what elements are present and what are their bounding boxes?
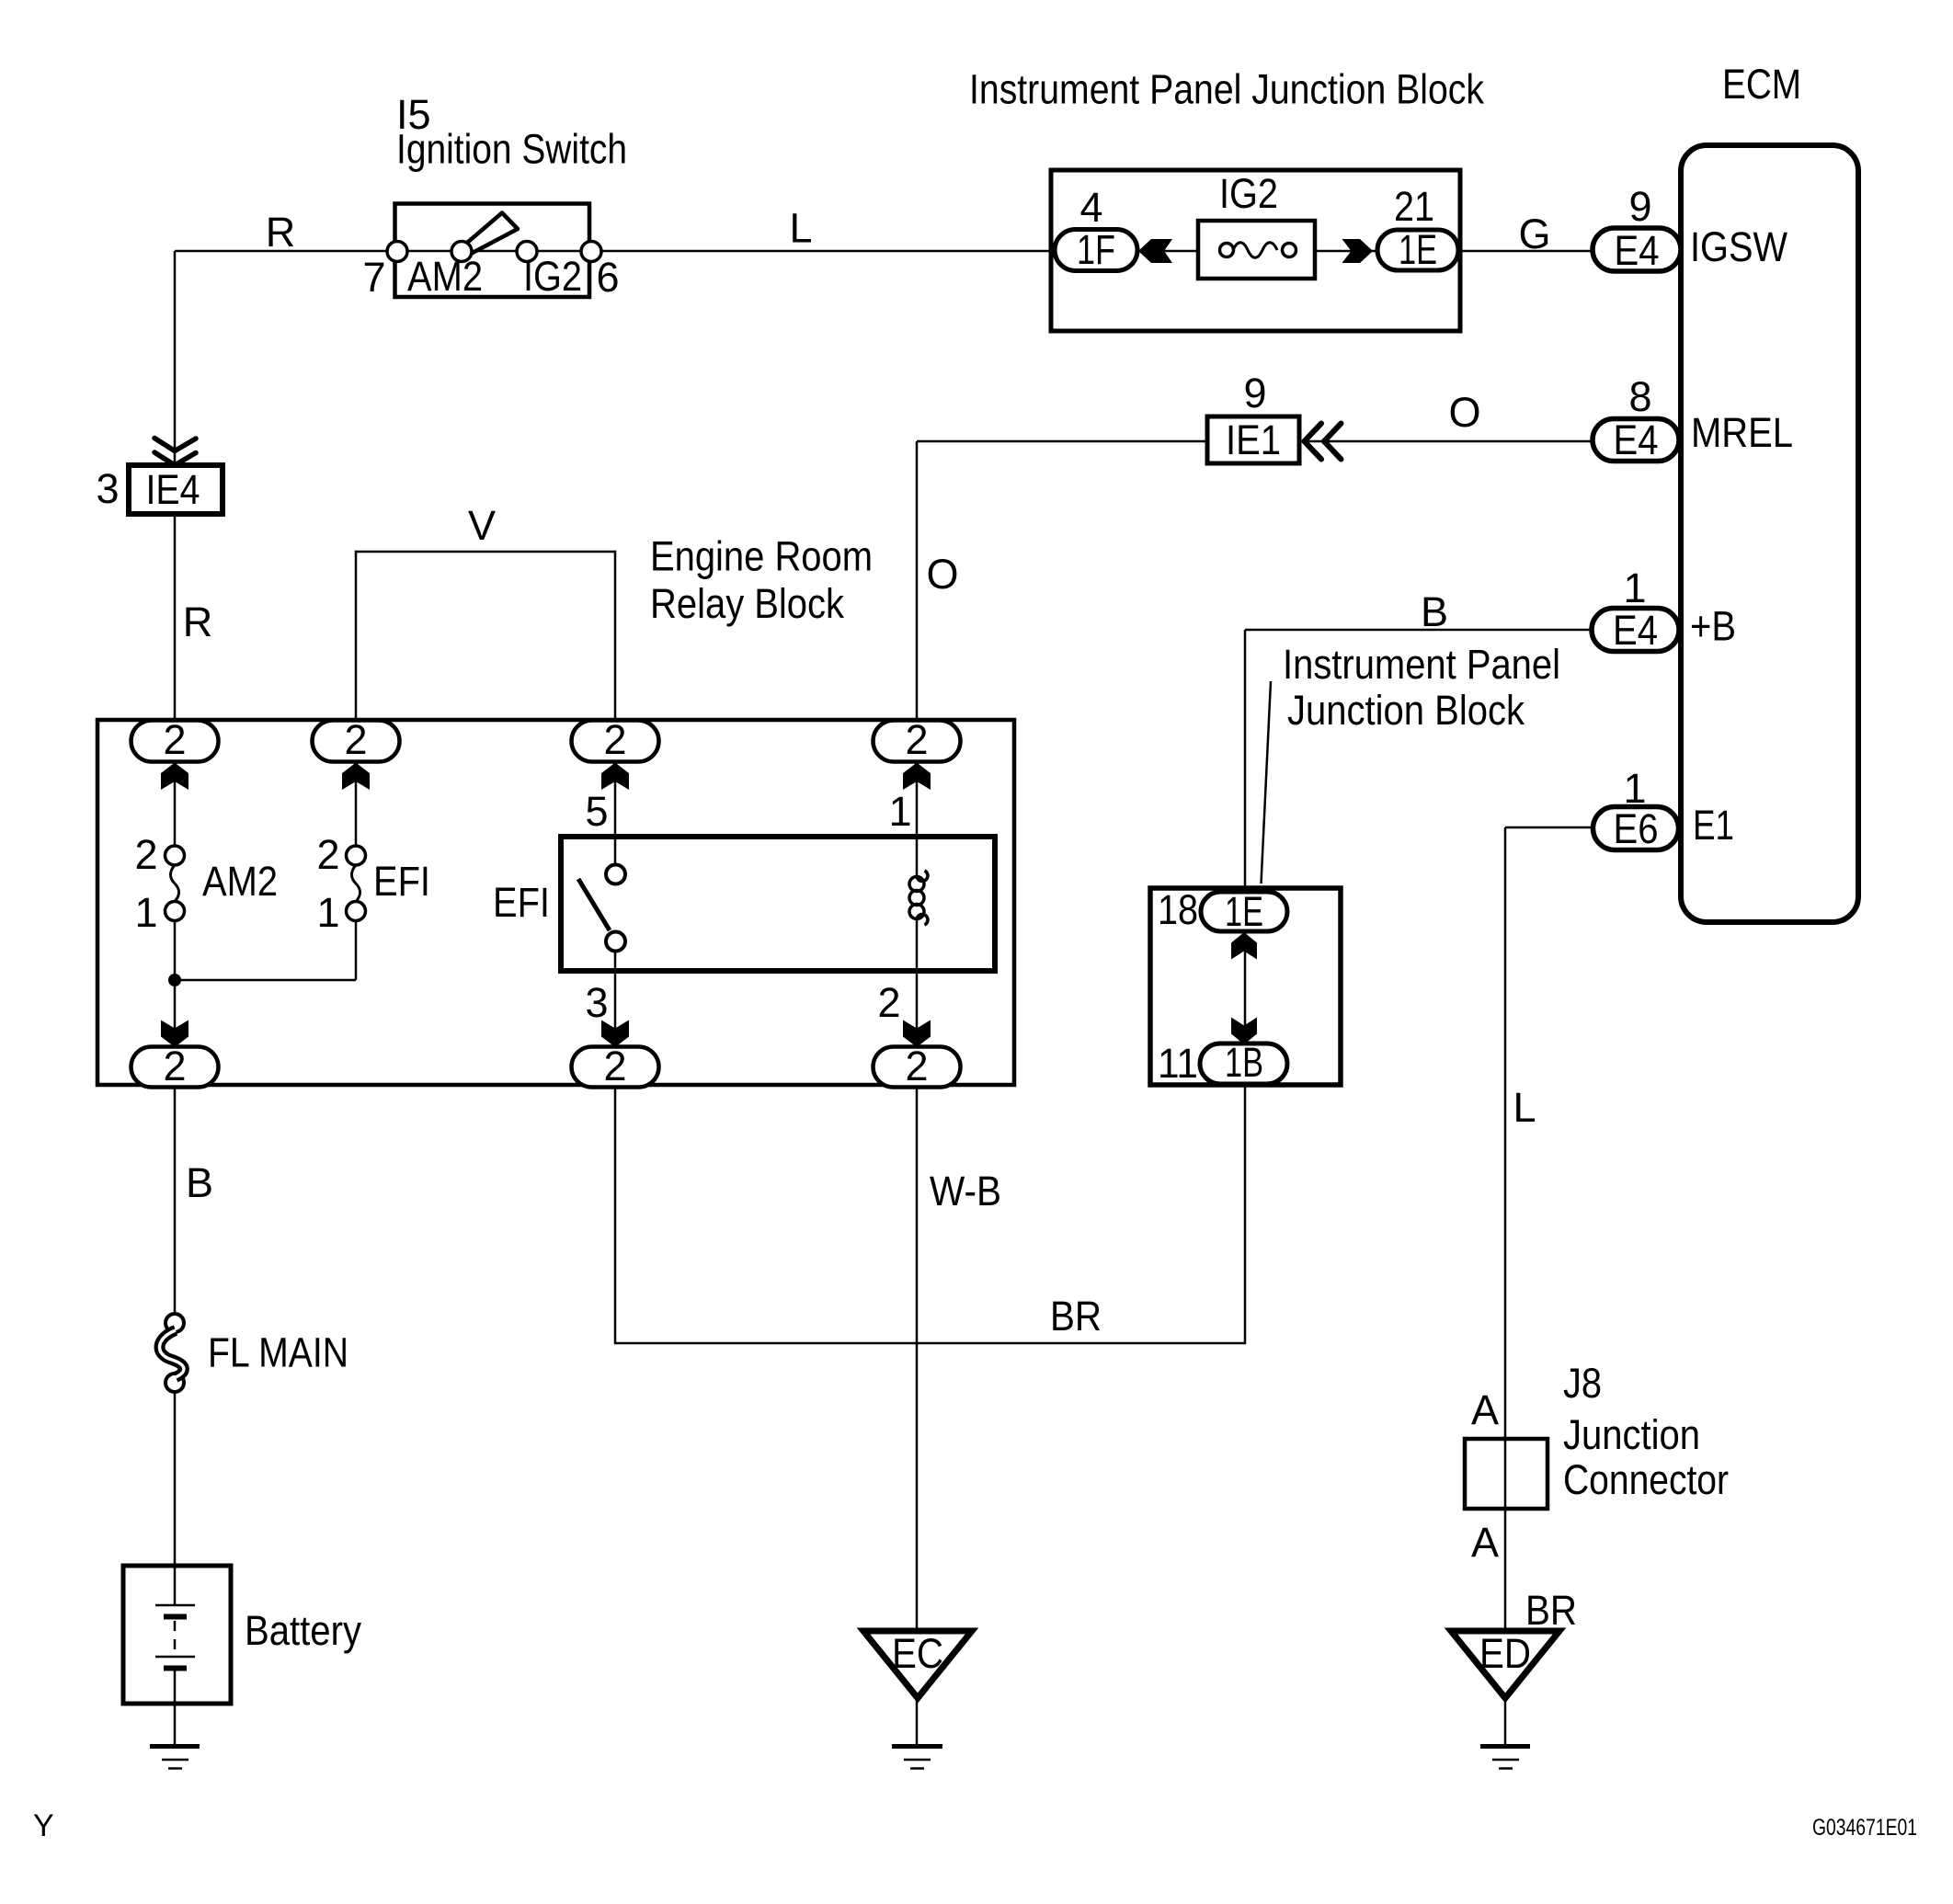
svg-text:EFI: EFI — [493, 879, 550, 926]
svg-text:1B: 1B — [1225, 1039, 1263, 1086]
svg-text:E4: E4 — [1615, 227, 1660, 274]
svg-text:2: 2 — [163, 1043, 186, 1089]
svg-text:EC: EC — [892, 1630, 943, 1677]
svg-text:J8: J8 — [1563, 1360, 1602, 1407]
svg-text:W-B: W-B — [930, 1168, 1001, 1214]
svg-text:Ignition Switch: Ignition Switch — [396, 126, 627, 173]
svg-text:IGSW: IGSW — [1690, 223, 1787, 270]
svg-text:O: O — [926, 551, 958, 598]
svg-text:18: 18 — [1158, 886, 1198, 933]
svg-text:21: 21 — [1394, 183, 1434, 230]
svg-text:3: 3 — [96, 465, 119, 512]
svg-text:2: 2 — [905, 716, 928, 763]
svg-text:Relay Block: Relay Block — [650, 580, 844, 627]
svg-text:Instrument Panel Junction Bloc: Instrument Panel Junction Block — [969, 66, 1484, 113]
svg-text:E4: E4 — [1614, 416, 1659, 463]
svg-text:1F: 1F — [1077, 226, 1115, 273]
svg-text:2: 2 — [877, 979, 900, 1026]
svg-text:2: 2 — [603, 1043, 626, 1089]
svg-text:A: A — [1471, 1386, 1499, 1433]
svg-text:E6: E6 — [1614, 805, 1659, 852]
svg-text:IE1: IE1 — [1226, 416, 1281, 463]
svg-text:V: V — [468, 502, 496, 549]
svg-text:1E: 1E — [1399, 226, 1437, 273]
svg-text:Connector: Connector — [1563, 1456, 1729, 1503]
svg-text:2: 2 — [905, 1043, 928, 1089]
svg-text:MREL: MREL — [1691, 409, 1793, 456]
svg-text:G034671E01: G034671E01 — [1812, 1815, 1917, 1841]
svg-text:Junction Block: Junction Block — [1287, 687, 1525, 734]
svg-text:2: 2 — [134, 831, 157, 878]
svg-text:AM2: AM2 — [202, 858, 278, 905]
svg-text:Battery: Battery — [245, 1607, 361, 1654]
svg-text:L: L — [1513, 1084, 1536, 1131]
svg-text:+B: +B — [1690, 603, 1736, 650]
svg-text:1: 1 — [316, 889, 339, 936]
svg-text:B: B — [186, 1159, 213, 1206]
svg-text:A: A — [1471, 1519, 1499, 1566]
svg-text:O: O — [1448, 389, 1480, 436]
svg-text:IG2: IG2 — [1219, 170, 1278, 217]
svg-text:EFI: EFI — [373, 858, 430, 905]
svg-text:L: L — [789, 205, 812, 252]
svg-text:BR: BR — [1050, 1293, 1102, 1340]
svg-text:1: 1 — [134, 889, 157, 936]
svg-text:2: 2 — [316, 831, 339, 878]
svg-text:IE4: IE4 — [146, 466, 200, 513]
svg-text:3: 3 — [585, 979, 608, 1026]
svg-text:BR: BR — [1525, 1587, 1577, 1634]
svg-text:R: R — [266, 209, 296, 256]
svg-text:2: 2 — [163, 716, 186, 763]
svg-text:Instrument Panel: Instrument Panel — [1283, 641, 1560, 688]
svg-text:9: 9 — [1628, 183, 1651, 230]
svg-text:B: B — [1421, 588, 1448, 635]
svg-text:R: R — [183, 599, 213, 645]
svg-text:IG2: IG2 — [523, 253, 582, 300]
svg-text:2: 2 — [603, 716, 626, 763]
svg-text:8: 8 — [1628, 373, 1651, 420]
svg-text:5: 5 — [585, 788, 608, 835]
svg-text:1: 1 — [888, 788, 911, 835]
svg-text:G: G — [1518, 211, 1550, 257]
svg-text:Junction: Junction — [1563, 1411, 1700, 1458]
svg-text:9: 9 — [1243, 370, 1266, 416]
svg-text:6: 6 — [596, 254, 619, 301]
svg-text:E4: E4 — [1613, 607, 1658, 654]
svg-text:ED: ED — [1479, 1630, 1531, 1677]
svg-text:Y: Y — [33, 1808, 54, 1843]
svg-text:11: 11 — [1158, 1040, 1198, 1087]
svg-text:4: 4 — [1079, 184, 1102, 231]
svg-text:AM2: AM2 — [407, 253, 483, 300]
svg-text:1: 1 — [1623, 564, 1646, 611]
svg-text:2: 2 — [344, 716, 367, 763]
svg-text:Engine Room: Engine Room — [650, 533, 873, 580]
svg-text:1E: 1E — [1225, 888, 1263, 935]
svg-text:FL MAIN: FL MAIN — [208, 1329, 348, 1376]
svg-text:7: 7 — [362, 254, 385, 301]
svg-text:ECM: ECM — [1722, 61, 1801, 108]
svg-text:E1: E1 — [1693, 802, 1734, 849]
